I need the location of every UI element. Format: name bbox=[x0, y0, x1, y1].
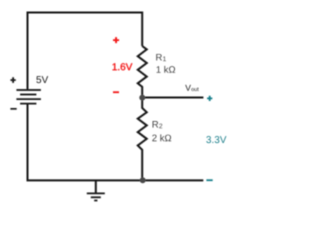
annotation - (teal, Vout polarity) bbox=[206, 179, 212, 181]
wire: battery - down to bottom rail bbox=[27, 104, 29, 180]
annotation - (red, across R1) bbox=[113, 91, 119, 93]
value label 1 kOhm bbox=[157, 66, 176, 73]
annotation + (red, across R1) bbox=[113, 37, 119, 43]
ref label R1 bbox=[156, 54, 166, 61]
battery V1 5V bbox=[16, 90, 41, 104]
ground bbox=[87, 181, 105, 201]
annotation 1.6V (red) bbox=[113, 63, 133, 70]
node junction at Vout tap (R1/R2) bbox=[139, 95, 145, 101]
battery + terminal mark bbox=[10, 77, 15, 83]
wire: left rail up from battery +, across top, down to R1 bbox=[28, 13, 143, 90]
battery - terminal mark bbox=[10, 108, 16, 110]
resistor R1 bbox=[138, 46, 147, 97]
net label Vout bbox=[185, 85, 198, 91]
annotation 3.3V (teal) bbox=[206, 136, 226, 143]
annotation + (teal, Vout polarity) bbox=[207, 96, 212, 101]
value label 5V bbox=[36, 76, 48, 83]
wire: Vout tap to the right bbox=[142, 97, 203, 99]
resistor R2 bbox=[138, 100, 147, 181]
node junction at bottom rail (R2 to ground return) bbox=[140, 177, 146, 183]
value label 2 kOhm bbox=[152, 134, 171, 141]
ref label R2 bbox=[153, 121, 163, 128]
wire: bottom rail bbox=[27, 179, 204, 181]
